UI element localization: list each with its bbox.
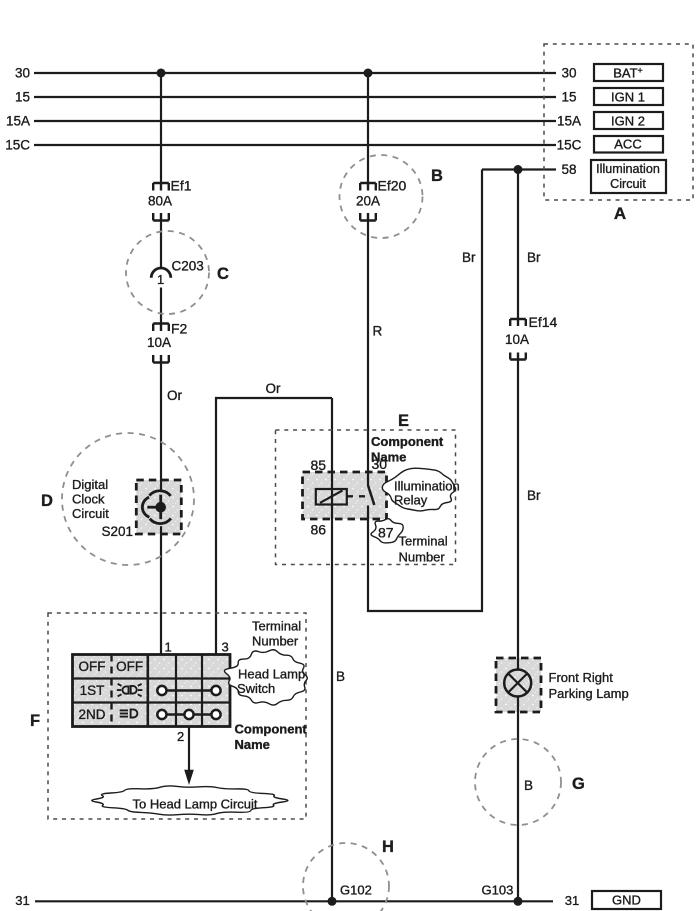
svg-text:A: A (614, 204, 626, 223)
svg-text:58: 58 (561, 162, 576, 177)
svg-text:B: B (336, 669, 345, 684)
svg-text:G: G (572, 775, 585, 793)
svg-text:C203: C203 (172, 259, 204, 274)
svg-text:R: R (373, 324, 383, 339)
svg-text:15: 15 (561, 90, 576, 105)
svg-text:E: E (398, 412, 409, 430)
svg-text:Name: Name (235, 737, 270, 752)
svg-text:B: B (431, 167, 443, 185)
svg-text:2: 2 (177, 729, 184, 744)
svg-text:Relay: Relay (394, 493, 428, 508)
svg-text:Parking Lamp: Parking Lamp (549, 686, 629, 701)
svg-text:Ef20: Ef20 (378, 178, 407, 194)
svg-text:S201: S201 (102, 524, 134, 539)
svg-text:Br: Br (462, 250, 476, 265)
svg-text:B: B (524, 778, 533, 793)
svg-text:15A: 15A (557, 114, 581, 129)
svg-text:Circuit: Circuit (72, 506, 109, 521)
svg-text:Head Lamp: Head Lamp (238, 667, 305, 682)
svg-text:86: 86 (311, 522, 327, 538)
svg-text:15C: 15C (5, 138, 30, 153)
svg-text:30: 30 (372, 456, 388, 472)
svg-text:G103: G103 (482, 883, 514, 898)
svg-text:3: 3 (222, 640, 229, 655)
svg-text:F: F (30, 712, 40, 730)
svg-text:15: 15 (15, 90, 30, 105)
svg-text:Ef14: Ef14 (529, 314, 558, 330)
svg-text:ACC: ACC (614, 137, 641, 152)
svg-text:2ND: 2ND (78, 707, 105, 722)
svg-text:1: 1 (157, 272, 164, 287)
svg-text:Number: Number (399, 550, 446, 565)
svg-text:31: 31 (15, 893, 29, 908)
svg-text:Terminal: Terminal (399, 534, 448, 549)
svg-text:Ef1: Ef1 (171, 178, 192, 194)
svg-text:Or: Or (266, 381, 282, 396)
svg-text:1ST: 1ST (80, 683, 105, 698)
svg-text:Illumination: Illumination (596, 162, 660, 176)
svg-text:80A: 80A (148, 194, 172, 209)
svg-text:Component: Component (371, 434, 444, 449)
svg-text:H: H (382, 838, 394, 856)
svg-text:15C: 15C (557, 138, 582, 153)
svg-text:GND: GND (612, 893, 641, 908)
svg-text:30: 30 (15, 66, 30, 81)
svg-text:Number: Number (252, 634, 299, 649)
svg-text:Switch: Switch (237, 681, 275, 696)
svg-text:OFF: OFF (79, 659, 106, 674)
svg-text:85: 85 (311, 457, 327, 473)
svg-text:Clock: Clock (72, 492, 105, 507)
svg-text:D: D (41, 492, 53, 510)
svg-text:To Head Lamp Circuit: To Head Lamp Circuit (133, 797, 258, 812)
svg-text:C: C (217, 265, 229, 283)
svg-text:IGN 2: IGN 2 (611, 114, 645, 129)
svg-text:Component: Component (235, 722, 308, 737)
svg-text:Br: Br (527, 250, 541, 265)
svg-text:OFF: OFF (116, 659, 143, 674)
svg-text:Front Right: Front Right (549, 670, 614, 685)
svg-text:87: 87 (378, 525, 394, 541)
svg-text:Digital: Digital (72, 477, 108, 492)
svg-text:BAT+: BAT+ (613, 66, 643, 81)
svg-text:G102: G102 (340, 883, 372, 898)
svg-text:Circuit: Circuit (610, 177, 646, 191)
svg-text:30: 30 (561, 66, 576, 81)
svg-text:Br: Br (527, 488, 541, 503)
svg-text:F2: F2 (171, 321, 188, 337)
svg-text:IGN 1: IGN 1 (611, 90, 645, 105)
svg-text:10A: 10A (505, 332, 529, 347)
svg-text:31: 31 (565, 893, 579, 908)
svg-text:10A: 10A (147, 335, 171, 350)
svg-text:Illumination: Illumination (394, 479, 460, 494)
svg-text:Or: Or (167, 388, 183, 403)
svg-text:15A: 15A (6, 114, 30, 129)
svg-text:Terminal: Terminal (252, 619, 301, 634)
svg-text:1: 1 (165, 640, 172, 655)
svg-text:20A: 20A (356, 194, 380, 209)
